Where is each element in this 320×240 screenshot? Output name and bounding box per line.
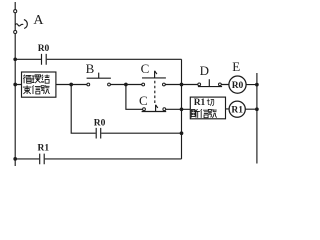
svg-text:R1: R1 <box>37 144 49 154</box>
svg-text:C: C <box>139 93 148 108</box>
svg-text:D: D <box>200 63 209 78</box>
svg-text:R0: R0 <box>94 118 106 128</box>
svg-text:R0: R0 <box>232 81 244 91</box>
svg-text:B: B <box>86 61 95 76</box>
svg-text:C: C <box>141 61 150 76</box>
svg-text:R1: R1 <box>231 106 243 116</box>
svg-text:A: A <box>33 13 44 28</box>
svg-text:R0: R0 <box>38 44 50 54</box>
svg-text:R1: R1 <box>194 98 206 108</box>
svg-text:E: E <box>232 59 240 74</box>
